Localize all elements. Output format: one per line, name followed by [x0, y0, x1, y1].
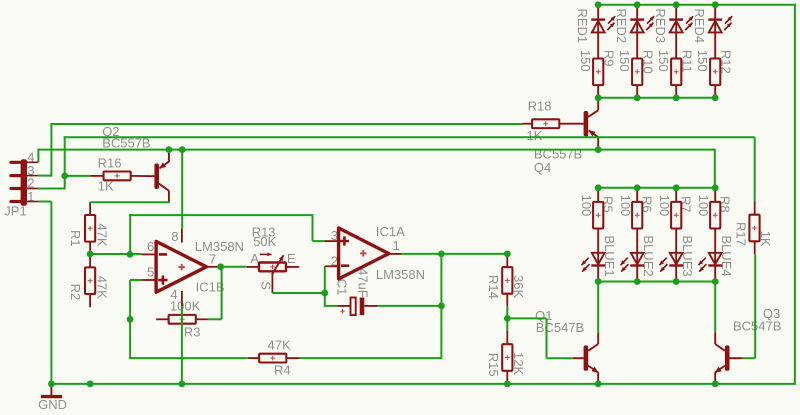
- wire C1 right to output column: [378, 305, 442, 307]
- svg-text:47K: 47K: [268, 338, 291, 353]
- node Q1 emitter on ground rail: [595, 381, 602, 388]
- svg-text:BLUE3: BLUE3: [680, 235, 695, 276]
- BLUE3 light arrows: [660, 258, 667, 265]
- svg-text:BLUE4: BLUE4: [719, 235, 734, 276]
- wire R3 node down to R4 row: [129, 319, 131, 358]
- svg-text:GND: GND: [38, 397, 67, 412]
- R13 set arrow: [260, 253, 272, 255]
- R13 pin S stub: [271, 273, 273, 293]
- ground rail: [51, 383, 795, 385]
- transistor Q2 BC557B: [154, 164, 159, 189]
- node Q3 emitter on ground rail: [712, 381, 719, 388]
- wire IC1B pin6 node link: [129, 214, 131, 254]
- R13 pin A stub: [247, 266, 259, 268]
- resistor R3 100K: [169, 315, 196, 324]
- LED BLUE1: [597, 229, 599, 282]
- node IC1A output: [438, 251, 445, 258]
- BLUE4 light arrows: [699, 258, 706, 265]
- LED RED2: [636, 5, 638, 59]
- wire V+ row down to blue rail: [714, 149, 716, 188]
- LED RED3: [675, 5, 677, 59]
- svg-text:IC1A: IC1A: [376, 224, 405, 239]
- node R2 bottom on ground rail: [87, 381, 94, 388]
- svg-text:150: 150: [617, 50, 632, 72]
- svg-text:1: 1: [393, 238, 400, 253]
- R13 pin E stub: [286, 266, 299, 268]
- resistor R5 100: [597, 188, 599, 202]
- node Q4 emitter on V+ row: [595, 146, 602, 153]
- IC1B pin 8 stub: [181, 228, 183, 242]
- wire R13 S to IC1A pin2 node: [272, 292, 324, 294]
- wire output column down: [440, 254, 442, 306]
- svg-text:R1: R1: [68, 230, 83, 247]
- svg-text:6: 6: [147, 239, 154, 254]
- Q1 emitter with arrow: [588, 366, 598, 373]
- wire JP1 pin2 to junction: [38, 188, 64, 190]
- IC1B pin 5 stub: [141, 279, 156, 281]
- R2 pin wires: [89, 254, 91, 267]
- ground symbol GND: [50, 384, 52, 397]
- resistor R10 150: [632, 59, 642, 86]
- svg-text:47K: 47K: [94, 223, 109, 246]
- svg-text:BC547B: BC547B: [733, 319, 781, 334]
- resistor R17 1K: [749, 215, 759, 242]
- R18 pin wires: [523, 123, 533, 125]
- node Q2 emitter on V+ row: [166, 146, 173, 153]
- svg-text:100: 100: [579, 195, 594, 217]
- Q3 collector: [715, 344, 725, 351]
- svg-text:150: 150: [695, 50, 710, 72]
- svg-text:RED1: RED1: [575, 8, 590, 43]
- capacitor C1 47uF: [351, 298, 356, 316]
- svg-text:8: 8: [171, 229, 178, 244]
- resistor R12 150: [710, 59, 720, 86]
- R17 pin wires: [754, 201, 756, 215]
- node C1 output column: [438, 303, 445, 310]
- R12 bottom pin: [714, 85, 716, 98]
- nodes blue top rail: [595, 184, 602, 191]
- R15 pin wires: [506, 331, 508, 344]
- connector JP1: [21, 159, 27, 206]
- node IC1B pin8 tap on V+ row: [179, 146, 186, 153]
- svg-text:R14: R14: [486, 275, 501, 299]
- node pin5 R3: [127, 316, 134, 323]
- transistor Q3 BC547B: [725, 345, 730, 370]
- resistor R7 100: [675, 188, 677, 202]
- wire R4 row: [129, 357, 248, 359]
- RED1 light arrows: [608, 16, 615, 23]
- svg-text:1K: 1K: [527, 128, 543, 143]
- svg-text:R18: R18: [528, 98, 552, 113]
- R9 bottom pin: [597, 85, 599, 98]
- node IC1B pin6: [126, 251, 133, 258]
- wire Q2 collector to R1: [90, 201, 170, 203]
- node IC1A pin2 node: [321, 290, 328, 297]
- wire JP1 pin1 to ground rail: [38, 201, 51, 203]
- LED RED1: [597, 5, 599, 59]
- wire row A to R18: [50, 123, 522, 125]
- BLUE2 light arrows: [621, 258, 628, 265]
- wire R14 R15 node: [506, 307, 508, 331]
- wire R1 R2 divider to pin6: [90, 253, 141, 255]
- LED BLUE3: [675, 229, 677, 282]
- wire JP1 pin4 to V+ row: [37, 149, 39, 163]
- resistor R6 100: [636, 188, 638, 202]
- RED4 light arrows: [725, 16, 732, 23]
- svg-text:RED3: RED3: [653, 8, 668, 43]
- wire Q3 base to R17: [743, 357, 756, 359]
- IC1A pin 3 stub: [324, 240, 338, 242]
- svg-text:47K: 47K: [95, 276, 110, 299]
- svg-text:BLUE2: BLUE2: [641, 235, 656, 276]
- transistor Q4 BC557B: [584, 111, 589, 136]
- node R14 R15 divider: [504, 315, 511, 322]
- wire red LED top rail: [598, 4, 796, 6]
- IC1A pin 2 stub: [325, 265, 339, 267]
- R10 bottom pin: [636, 85, 638, 98]
- C1 polarity plus: [340, 309, 344, 313]
- node IC1B pin4 on ground rail: [179, 381, 186, 388]
- nodes red LED top rail: [595, 1, 602, 8]
- svg-text:R17: R17: [733, 222, 748, 246]
- RED3 light arrows: [686, 16, 693, 23]
- node ground rail at GND symbol: [48, 381, 55, 388]
- resistor R14 36K: [502, 267, 512, 294]
- R14 pin wires: [506, 254, 508, 267]
- op-amp IC1B LM358N: [156, 241, 206, 292]
- wire right edge from top rail to ground rail: [794, 4, 796, 385]
- Q3 base stub: [730, 357, 743, 359]
- wire IC1B pin4 to ground: [181, 306, 183, 385]
- svg-text:100: 100: [618, 195, 633, 217]
- svg-text:C1: C1: [334, 279, 349, 296]
- wire V+ row drop to IC1B pin 8: [181, 150, 183, 229]
- svg-text:LM358N: LM358N: [195, 239, 244, 254]
- svg-text:47uF: 47uF: [356, 268, 371, 298]
- svg-text:IC1B: IC1B: [196, 279, 225, 294]
- svg-text:E: E: [287, 251, 296, 266]
- wire JP1 pin3 up to row A: [38, 175, 51, 177]
- wire blue LED top rail: [598, 187, 715, 189]
- R11 bottom pin: [675, 85, 677, 98]
- node R14 top: [504, 251, 511, 258]
- C1 pin wires: [338, 305, 351, 307]
- resistor R1 47K: [85, 215, 95, 242]
- IC1B pin 7 stub: [206, 266, 220, 268]
- svg-text:Q4: Q4: [534, 160, 551, 175]
- LED RED4: [714, 5, 716, 59]
- Q3 emitter with arrow: [715, 366, 725, 373]
- op-amp IC1A LM358N: [339, 228, 389, 279]
- wire Q1 collector to blue rail: [597, 282, 599, 333]
- RED2 light arrows: [647, 16, 654, 23]
- resistor R8 100: [714, 188, 716, 202]
- svg-text:JP1: JP1: [4, 204, 26, 219]
- svg-text:150: 150: [578, 50, 593, 72]
- wire IC1B output to R13: [221, 266, 247, 268]
- IC1A pin 1 stub: [389, 253, 402, 255]
- IC1B pin 6 stub: [141, 253, 156, 255]
- wire red LED bottom rail: [598, 97, 715, 99]
- wire pin2 node vertical: [324, 266, 326, 307]
- resistor R4 47K: [259, 354, 286, 363]
- BLUE1 light arrows: [582, 258, 589, 265]
- wire row B to R17: [64, 136, 755, 138]
- wire IC1B pin5 to R3 node: [130, 279, 141, 281]
- svg-text:150: 150: [656, 50, 671, 72]
- R3 pin wires: [156, 318, 169, 320]
- svg-text:5: 5: [147, 265, 154, 280]
- resistor R2 47K: [85, 267, 95, 294]
- svg-text:100: 100: [657, 195, 672, 217]
- nodes blue bottom rail: [595, 278, 602, 285]
- node IC1B output: [217, 263, 224, 270]
- svg-text:RED4: RED4: [692, 8, 707, 43]
- nodes red LED bottom rail: [595, 94, 602, 101]
- LED BLUE2: [636, 229, 638, 282]
- wire output node down to R3: [221, 267, 223, 320]
- svg-text:BLUE1: BLUE1: [602, 235, 617, 276]
- IC1B pin 4 stub: [181, 291, 183, 306]
- node R1 R2 divider: [87, 251, 94, 258]
- potentiometer R13 50K: [259, 263, 286, 272]
- node R15 bottom on ground rail: [504, 381, 511, 388]
- Q1 collector: [588, 344, 598, 351]
- svg-text:R4: R4: [274, 363, 291, 378]
- svg-text:RED2: RED2: [614, 8, 629, 43]
- wire IC1A output row: [401, 253, 507, 255]
- wire blue LED bottom rail: [598, 281, 715, 283]
- wire pin2 node to C1: [325, 305, 338, 307]
- svg-text:R3: R3: [184, 325, 201, 340]
- svg-text:BC547B: BC547B: [536, 320, 584, 335]
- node junction JP1 pin2/pin3 R16: [61, 173, 68, 180]
- R16 pin wires: [90, 175, 103, 177]
- svg-text:S: S: [259, 281, 274, 290]
- svg-text:R15: R15: [486, 353, 501, 377]
- R13 wiper arrow: [272, 255, 284, 274]
- LED BLUE4: [714, 229, 716, 282]
- wire to IC1A pin 3: [313, 240, 325, 242]
- svg-text:50K: 50K: [253, 234, 276, 249]
- svg-text:100: 100: [696, 195, 711, 217]
- resistor R9 150: [593, 59, 603, 86]
- resistor R15 12K: [502, 344, 512, 371]
- wire R14 node to Q1 base: [507, 317, 546, 319]
- svg-text:LM358N: LM358N: [376, 267, 425, 282]
- svg-text:R2: R2: [68, 284, 83, 301]
- resistor R18 1K: [532, 119, 559, 128]
- wire junction to R16: [65, 175, 91, 177]
- wire Q3 collector to blue rail: [714, 282, 716, 333]
- transistor Q1 BC547B: [584, 345, 589, 370]
- Q1 base stub: [573, 357, 584, 359]
- resistor R16 1K: [104, 172, 131, 181]
- wire R4 pin stubs red: [248, 357, 260, 359]
- svg-text:R16: R16: [98, 155, 122, 170]
- resistor R11 150: [671, 59, 681, 86]
- wire R4 right to C1 node column: [299, 357, 441, 359]
- R1 pin wires: [89, 202, 91, 215]
- svg-text:100K: 100K: [170, 299, 201, 314]
